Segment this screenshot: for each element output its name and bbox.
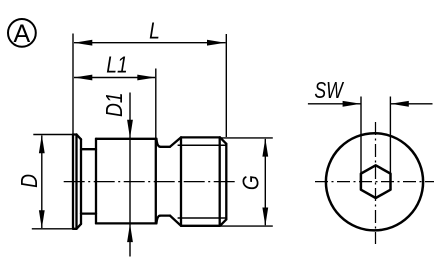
side view: part outline (thick) — [73, 135, 226, 229]
L arrow right — [207, 40, 225, 46]
G arrow top (points up) — [262, 138, 268, 156]
L1 dimension line — [74, 77, 155, 79]
L1 arrow right — [137, 75, 155, 81]
L extension line left — [72, 34, 74, 135]
neck bottom edge — [81, 212, 96, 214]
flange bottom edge — [73, 228, 77, 230]
thread root top — [178, 144, 227, 146]
L dimension line — [74, 42, 226, 44]
groove top slope — [170, 137, 181, 146]
dimension L1 — [74, 69, 156, 140]
end view vertical centerline — [375, 122, 377, 244]
groove top fillet — [156, 139, 160, 147]
L arrow left — [74, 40, 92, 46]
flange right face — [80, 139, 82, 224]
flange bottom chamfer — [77, 224, 82, 229]
end view horizontal centerline — [315, 181, 434, 183]
end view: circle outline — [326, 133, 423, 230]
thread bottom edge — [181, 225, 220, 227]
thread root bottom — [178, 217, 227, 219]
G extension top — [221, 137, 273, 139]
thread right face — [225, 144, 227, 220]
SW dimension line left — [308, 103, 361, 105]
side view centerline — [64, 181, 238, 183]
L1 arrow left — [74, 75, 92, 81]
SW dimension line right — [391, 103, 433, 105]
G dimension line — [264, 139, 266, 225]
SW arrow right (points left) — [391, 101, 409, 107]
neck top edge — [81, 148, 96, 150]
svg-text:SW: SW — [314, 78, 344, 104]
cylinder left face — [95, 139, 97, 224]
svg-text:L1: L1 — [106, 52, 127, 78]
svg-text:D: D — [16, 174, 42, 188]
SW arrow left (points right) — [343, 101, 361, 107]
cylinder top edge — [96, 138, 156, 140]
dimension D — [32, 135, 73, 229]
D1 dimension line — [129, 93, 131, 257]
thread top edge — [181, 136, 220, 138]
flange left face — [72, 135, 74, 229]
svg-text:D1: D1 — [101, 92, 127, 117]
end view: hex socket — [361, 165, 391, 198]
thread top-right chamfer — [220, 137, 226, 143]
thread left face — [180, 137, 182, 225]
SW extension line left — [360, 97, 362, 174]
groove bottom slope — [170, 216, 181, 226]
D1 arrow top (points down) — [127, 120, 133, 139]
flange chamfer edge line — [75, 135, 77, 229]
D extension bottom — [32, 228, 73, 230]
flange top chamfer — [77, 135, 82, 140]
flange top edge — [73, 133, 77, 135]
G extension bottom — [221, 225, 273, 227]
svg-text:L: L — [149, 18, 160, 44]
svg-text:G: G — [238, 175, 264, 190]
dimension L — [73, 34, 226, 138]
dimension G — [221, 138, 273, 226]
dimension D1 — [129, 93, 131, 257]
view label balloon A — [8, 19, 36, 47]
cylinder right face — [155, 140, 157, 223]
L1 extension line right — [155, 69, 157, 140]
thread minor diameter lines (thin) — [178, 145, 227, 218]
thread bottom-right chamfer — [220, 219, 226, 225]
D arrow top (points up) — [39, 135, 45, 153]
svg-text:A: A — [14, 20, 31, 48]
groove bottom flat — [160, 214, 170, 216]
D dimension line — [41, 136, 43, 229]
D extension top — [33, 134, 73, 136]
cylinder bottom edge — [96, 222, 156, 224]
L extension line right — [225, 34, 227, 137]
D arrow bottom (points down) — [39, 210, 45, 228]
thread chamfer edge line — [219, 137, 221, 225]
groove top flat — [160, 146, 170, 148]
groove bottom fillet — [156, 216, 160, 224]
dimension SW — [308, 97, 433, 174]
SW extension line right — [389, 97, 391, 174]
G arrow bottom (points down) — [262, 208, 268, 226]
D1 arrow bottom (points up) — [127, 224, 133, 243]
